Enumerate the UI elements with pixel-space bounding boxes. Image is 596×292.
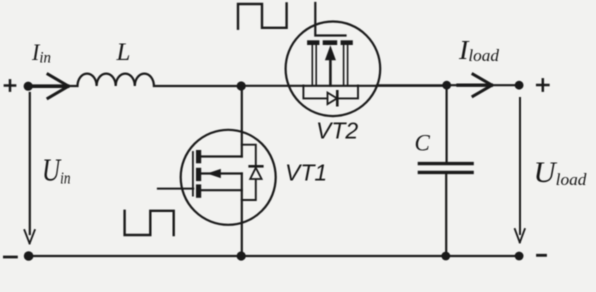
svg-text:L: L bbox=[116, 39, 131, 66]
svg-text:VT1: VT1 bbox=[285, 160, 327, 186]
svg-text:Iin: Iin bbox=[31, 40, 51, 67]
svg-text:Uin: Uin bbox=[42, 152, 71, 188]
svg-text:C: C bbox=[415, 131, 431, 156]
svg-text:Uload: Uload bbox=[534, 156, 587, 189]
svg-text:VT2: VT2 bbox=[316, 118, 358, 144]
svg-text:Iload: Iload bbox=[458, 35, 500, 65]
